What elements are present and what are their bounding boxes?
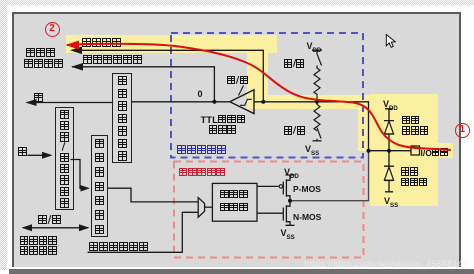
label protection diode upper bbox=[402, 116, 419, 126]
vdd supply pull-up bbox=[312, 50, 322, 54]
wire alternate function output bbox=[88, 212, 199, 252]
highlight box protection diodes bbox=[370, 94, 438, 206]
junction dots bbox=[212, 100, 216, 104]
mux trapezoid bbox=[198, 198, 204, 218]
label 0 bbox=[198, 89, 203, 99]
wire read with arrow bbox=[27, 102, 113, 104]
highlight strip io label bbox=[438, 143, 453, 158]
highlight band analog input bbox=[66, 35, 277, 53]
highlight band right vertical bbox=[358, 95, 374, 151]
register box bit set clear bbox=[55, 107, 74, 211]
label vdd pmos bbox=[284, 167, 299, 180]
wire alternate function input with arrow bbox=[72, 67, 214, 102]
wire control box to nmos gate bbox=[257, 212, 283, 214]
label io port bbox=[421, 148, 448, 158]
nmos Q2 bbox=[283, 201, 294, 226]
label from on-chip peripheral bbox=[20, 235, 57, 246]
label on/off upper bbox=[284, 59, 305, 69]
protection diode D2 bbox=[384, 151, 394, 192]
highlight band analog vertical bbox=[247, 35, 268, 109]
label vss diode bbox=[384, 196, 398, 209]
wire bit-set to output register bbox=[71, 160, 82, 189]
wire output register to mux bbox=[108, 188, 199, 202]
output control box bbox=[212, 183, 257, 221]
label output driver red bbox=[179, 168, 225, 179]
page edge dot texture top bbox=[0, 0, 474, 5]
label vss nmos bbox=[281, 228, 295, 241]
label analog input bbox=[82, 38, 121, 50]
label to on-chip peripheral bbox=[26, 48, 55, 60]
label vdd pull-up bbox=[307, 41, 322, 54]
wire control box to pmos gate bbox=[257, 185, 279, 187]
resistor pull-up bbox=[314, 68, 320, 102]
trigger enable stroke bbox=[239, 86, 244, 96]
label alt function input bbox=[83, 55, 142, 67]
label output control circuit bbox=[220, 190, 248, 201]
label TTL schmitt bbox=[201, 115, 246, 126]
red annotation curve bbox=[67, 44, 451, 150]
watermark bbox=[304, 259, 468, 269]
bottom window bar bbox=[9, 269, 474, 274]
label vss pull-down bbox=[305, 144, 319, 157]
resistor pull-down bbox=[314, 102, 320, 131]
label on/off lower bbox=[284, 126, 305, 136]
wire analog input with arrow bbox=[72, 50, 263, 102]
switch pull-up bbox=[317, 54, 322, 69]
wire read-write double arrow bbox=[23, 227, 88, 229]
page edge dot texture left bbox=[0, 0, 7, 270]
wire pin line bbox=[369, 150, 412, 152]
wire mux to control box bbox=[205, 206, 213, 208]
switch pull-down bbox=[317, 128, 321, 141]
wire trigger input node to pin bbox=[254, 102, 369, 151]
mouse cursor bbox=[386, 35, 395, 48]
wire mos drain to pin bbox=[290, 151, 368, 201]
label alt function output bbox=[89, 242, 148, 254]
label write bbox=[18, 147, 27, 159]
annotation circle 2 bbox=[45, 22, 60, 37]
label on/off trigger bbox=[227, 76, 248, 86]
protection diode D1 bbox=[384, 109, 394, 151]
wire write with arrow bbox=[28, 154, 52, 156]
highlight band node horizontal bbox=[247, 95, 374, 109]
wire input register to trigger bbox=[132, 101, 230, 103]
input driver dashed box bbox=[171, 33, 363, 158]
register box output data bbox=[91, 135, 109, 237]
io pad square bbox=[411, 146, 420, 155]
output driver dashed box bbox=[174, 162, 364, 258]
annotation circle 1 bbox=[455, 123, 470, 138]
register box input data bbox=[112, 73, 132, 164]
label vdd diode bbox=[383, 99, 398, 112]
label read bbox=[34, 93, 43, 105]
label N-MOS bbox=[293, 212, 321, 222]
label input driver blue bbox=[177, 145, 226, 157]
label protection diode lower bbox=[401, 167, 418, 177]
vss terminal pull-down bbox=[313, 140, 322, 142]
label read/write bbox=[38, 215, 61, 227]
TTL schmitt trigger U1 bbox=[230, 90, 254, 114]
pmos Q1 bbox=[283, 175, 294, 201]
label P-MOS bbox=[293, 184, 321, 194]
